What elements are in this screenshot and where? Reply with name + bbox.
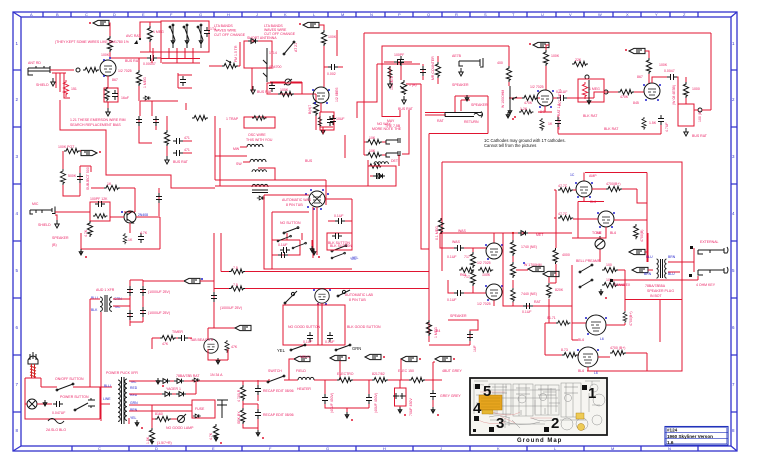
svg-text:0.1UF: 0.1UF <box>325 340 335 344</box>
svg-text:MR COUNTER: MR COUNTER <box>431 56 435 80</box>
ground arrow A2 <box>312 249 316 255</box>
resistor R44 <box>459 268 474 273</box>
wire osc feed <box>336 30 338 56</box>
capacitor C24 <box>330 115 336 125</box>
switch wafer 2 <box>184 25 189 48</box>
jack J3 <box>459 58 483 67</box>
resistor R42 <box>470 252 475 268</box>
svg-text:1K: 1K <box>128 238 133 242</box>
wire tuner loop 3 <box>357 64 420 118</box>
svg-text:BRN: BRN <box>668 255 676 259</box>
ground arrow A9 <box>151 439 154 444</box>
wire converter plate <box>319 25 343 87</box>
svg-text:RED: RED <box>130 386 138 390</box>
capacitor C10 <box>136 116 142 126</box>
svg-text:5: 5 <box>483 383 491 400</box>
wire U12 plate <box>592 189 647 203</box>
svg-text:100K: 100K <box>551 54 560 58</box>
resistor R54 <box>602 267 618 272</box>
svg-text:RECAP EDIT 08/06: RECAP EDIT 08/06 <box>263 389 294 393</box>
svg-text:FIELD: FIELD <box>296 369 306 373</box>
svg-text:AVC RAT: AVC RAT <box>126 34 142 38</box>
tube U1 triode <box>100 60 116 76</box>
wire det filter <box>384 62 412 80</box>
resistor R49 <box>547 283 552 298</box>
svg-text:8 PIN TUB: 8 PIN TUB <box>286 203 303 207</box>
svg-text:0.047UF: 0.047UF <box>52 411 65 415</box>
cathode line U4 <box>588 80 590 104</box>
wire B+ top bus <box>364 33 711 142</box>
svg-text:1/2 7025: 1/2 7025 <box>118 69 132 73</box>
resistor R9 <box>321 30 326 46</box>
output transformer T2 <box>657 259 667 278</box>
resistor R48 <box>511 288 516 302</box>
tuning box <box>244 41 272 68</box>
svg-text:(W 08 4E5B): (W 08 4E5B) <box>672 85 676 105</box>
svg-text:1.2K: 1.2K <box>520 107 528 111</box>
svg-text:400: 400 <box>497 61 503 65</box>
wire tuner loop 2 <box>382 46 509 117</box>
svg-text:100K: 100K <box>328 35 337 39</box>
svg-text:YEL: YEL <box>277 348 286 353</box>
resistor R26 <box>646 58 651 74</box>
svg-text:BUS RAT: BUS RAT <box>398 107 414 111</box>
svg-text:OSC WIRE: OSC WIRE <box>248 133 266 137</box>
twin electrolytic C44 <box>395 388 407 406</box>
svg-text:SEARCH REPLACEMENT BIAS: SEARCH REPLACEMENT BIAS <box>70 123 121 127</box>
svg-text:2N408: 2N408 <box>138 213 148 217</box>
resistor R40 <box>123 233 127 244</box>
svg-text:WAVES WIRE: WAVES WIRE <box>214 29 237 33</box>
capacitor C22 <box>335 218 345 224</box>
svg-text:R: R <box>455 12 458 17</box>
ground G3 <box>251 86 255 94</box>
svg-text:J: J <box>256 12 258 17</box>
svg-text:SPEAKER: SPEAKER <box>452 83 469 87</box>
bias box <box>192 400 215 418</box>
wire speaker out <box>668 248 694 272</box>
diode D8 <box>192 378 200 382</box>
wire 47k pair <box>554 190 598 219</box>
capacitor C48 <box>180 76 186 86</box>
tube U13 <box>598 211 614 227</box>
svg-text:B: B <box>56 12 59 17</box>
node B+ flag F1 <box>89 20 109 25</box>
resistor R20 <box>522 95 538 100</box>
switch S11 <box>336 345 350 350</box>
switch S14 <box>57 384 73 390</box>
pot R16 <box>400 80 407 95</box>
pilot lamp DS1 <box>27 399 37 409</box>
wire IF2 grid <box>423 56 438 84</box>
capacitor C8 <box>156 193 162 203</box>
tube U8 <box>486 243 502 259</box>
svg-text:BUS RAT: BUS RAT <box>173 160 189 164</box>
tube U4 <box>644 83 660 99</box>
svg-text:1/2 6BE6: 1/2 6BE6 <box>335 88 339 102</box>
svg-text:D: D <box>113 12 116 17</box>
resistor R67 <box>606 186 622 191</box>
resistor R57 <box>438 218 443 234</box>
selector tube U7 <box>315 289 329 303</box>
pot R6 <box>222 60 238 69</box>
svg-text:100K: 100K <box>659 63 668 67</box>
svg-text:FUSE: FUSE <box>195 407 205 411</box>
diode D11 <box>248 39 258 44</box>
svg-text:SHIELD: SHIELD <box>38 223 51 227</box>
resistor R69 <box>558 216 573 221</box>
switch S5 <box>277 235 291 241</box>
jack J6 <box>698 247 728 254</box>
ground arrow A12 <box>398 407 402 413</box>
wire rectifier row 2 <box>129 381 268 394</box>
ground G5 <box>165 156 169 164</box>
diode D5 <box>162 392 172 397</box>
resistor R11 <box>60 169 65 185</box>
wire rectifier row 1 <box>129 380 196 382</box>
flag F13 <box>294 356 310 361</box>
svg-text:GREY GREY: GREY GREY <box>440 394 461 398</box>
resistor R2 red <box>63 80 68 97</box>
resistor rows left <box>364 142 386 155</box>
svg-text:E: E <box>212 446 215 451</box>
svg-text:BRN: BRN <box>644 272 652 276</box>
svg-text:867: 867 <box>637 75 643 79</box>
svg-text:(1000UF 25V): (1000UF 25V) <box>220 306 242 310</box>
capacitor C1 <box>147 55 157 61</box>
wire tube stub <box>320 103 322 112</box>
resistor R30 <box>366 152 382 157</box>
svg-text:2: 2 <box>551 415 559 432</box>
svg-text:C: C <box>85 12 88 17</box>
border ticks bottom <box>72 446 698 451</box>
wire IF out <box>183 141 192 153</box>
resistor R68 <box>558 188 573 193</box>
svg-text:AE7B: AE7B <box>452 54 462 58</box>
svg-text:B4: B4 <box>436 329 440 333</box>
switch S9 <box>338 290 350 296</box>
IF can cluster <box>139 116 167 156</box>
ground G6 <box>402 96 406 104</box>
diode D10 <box>518 231 528 236</box>
flag F16 <box>401 356 417 361</box>
wire splitter bus <box>440 233 572 306</box>
svg-text:1C: 1C <box>570 173 575 177</box>
svg-text:X: X <box>626 12 629 17</box>
svg-text:1K: 1K <box>107 182 112 186</box>
svg-text:MAY: MAY <box>387 119 395 123</box>
wire converter loop <box>264 195 352 269</box>
antenna jack J1 <box>28 66 50 75</box>
svg-text:HEATER: HEATER <box>297 387 311 391</box>
filter caps bank <box>130 280 184 326</box>
heater resistor R38 <box>229 286 245 291</box>
resistor R45 <box>478 268 493 273</box>
capacitor C21 <box>555 117 561 127</box>
flag F15 <box>365 354 381 359</box>
svg-text:K: K <box>284 12 287 17</box>
resistor R25 red <box>582 82 587 99</box>
tube U6 <box>204 339 218 353</box>
ground arrow A15 <box>465 95 469 101</box>
trimmer cap VC1 <box>285 79 291 85</box>
capacitor C29 <box>127 310 133 320</box>
wire band box comb <box>153 48 200 63</box>
svg-text:ON/OFF SUTTON: ON/OFF SUTTON <box>55 377 84 381</box>
svg-text:H: H <box>383 446 386 451</box>
capacitor C43 <box>366 394 372 404</box>
resistor R65 <box>240 408 245 424</box>
flag F12 <box>632 267 648 272</box>
svg-text:8217/82: 8217/82 <box>372 372 385 376</box>
svg-text:A: A <box>30 12 33 17</box>
svg-text:BUS RAT: BUS RAT <box>692 134 708 138</box>
svg-text:(40UF 450V): (40UF 450V) <box>330 393 334 413</box>
svg-text:J: J <box>440 446 442 451</box>
svg-text:8.73: 8.73 <box>561 348 568 352</box>
AUD XFR T1 <box>100 295 112 312</box>
svg-text:POWER PUCK XFR: POWER PUCK XFR <box>106 371 138 375</box>
svg-text:SPEAKER: SPEAKER <box>450 314 467 318</box>
resistor R27 <box>683 82 688 98</box>
band switch box S1 <box>161 21 209 52</box>
svg-text:1K: 1K <box>548 122 553 126</box>
svg-text:1714: 1714 <box>269 51 277 55</box>
resistor R61 <box>337 377 353 382</box>
resistor R35 <box>252 116 266 121</box>
svg-text:L6: L6 <box>600 337 604 341</box>
svg-text:L6: L6 <box>594 371 598 375</box>
resistor R64 <box>240 385 245 401</box>
svg-text:4.7K: 4.7K <box>140 231 148 235</box>
svg-text:100: 100 <box>606 263 612 267</box>
wire speaker return <box>610 276 698 280</box>
svg-text:IN BOT: IN BOT <box>650 294 663 298</box>
diode D7 <box>193 414 201 418</box>
capacitor C32 <box>138 233 144 243</box>
svg-text:TIMER: TIMER <box>172 330 183 334</box>
svg-text:LTA BANDS: LTA BANDS <box>214 24 233 28</box>
wire osc tank <box>270 82 302 94</box>
wire plate supply V1 <box>109 23 110 36</box>
svg-text:GRN: GRN <box>352 346 361 351</box>
ground arrow A6 <box>43 400 47 406</box>
wire xfr feeds <box>90 349 112 421</box>
border ticks left right <box>13 70 737 412</box>
svg-text:0.1UF: 0.1UF <box>334 214 344 218</box>
svg-text:100K: 100K <box>101 53 110 57</box>
svg-text:BLU: BLU <box>104 384 111 388</box>
wire AC cord twisted <box>30 364 36 378</box>
flag F3 volume <box>81 150 97 155</box>
svg-text:SPEAKER: SPEAKER <box>471 103 488 107</box>
IF can 2 box <box>368 166 396 186</box>
wire IF can feed <box>368 155 399 166</box>
svg-text:#124: #124 <box>667 428 678 433</box>
switch S12 <box>580 265 592 272</box>
svg-text:4700(B+): 4700(B+) <box>606 182 621 186</box>
svg-text:4700 (B+): 4700 (B+) <box>610 346 625 350</box>
wire AVC bus <box>140 22 161 52</box>
svg-text:V: V <box>569 12 572 17</box>
svg-text:H: H <box>227 12 230 17</box>
capacitor C40 <box>53 401 63 407</box>
svg-text:DET: DET <box>391 159 399 163</box>
wire U13 plate <box>589 220 647 238</box>
svg-text:820K: 820K <box>555 288 564 292</box>
capacitor C34 <box>307 332 313 342</box>
resistor R14 <box>87 221 92 237</box>
svg-text:M: M <box>611 446 614 451</box>
svg-text:1780 1%: 1780 1% <box>115 40 129 44</box>
svg-text:WAS: WAS <box>458 229 467 233</box>
svg-text:STANDEX: STANDEX <box>614 283 631 287</box>
pot R47 <box>510 262 521 278</box>
flag F10 <box>543 271 559 276</box>
svg-text:EXTERNAL: EXTERNAL <box>700 240 719 244</box>
switch S3 <box>283 227 299 234</box>
fuse FU1 <box>48 419 64 424</box>
svg-text:0.1UF: 0.1UF <box>278 243 288 247</box>
tube U2 converter <box>313 87 329 103</box>
capacitor C30 <box>140 286 146 296</box>
flag F5 <box>629 48 645 53</box>
svg-text:AUTOMATIC WAS: AUTOMATIC WAS <box>282 198 312 202</box>
svg-text:W: W <box>598 12 602 17</box>
resistor R56 <box>426 320 431 336</box>
resistor R28 <box>642 117 646 130</box>
svg-text:FM 1.5 TR: FM 1.5 TR <box>234 45 238 62</box>
resistor R63 <box>409 377 425 382</box>
capacitor C28 <box>127 286 133 296</box>
node grid cap <box>76 68 80 72</box>
wire B+ main <box>268 379 442 381</box>
yellow transformer <box>479 395 502 410</box>
ground point 5 <box>475 384 480 389</box>
svg-text:4 700 R: 4 700 R <box>237 389 241 402</box>
svg-text:SPEAKER: SPEAKER <box>52 236 69 240</box>
svg-text:BL6: BL6 <box>610 231 616 235</box>
svg-text:4700(B+): 4700(B+) <box>629 312 633 327</box>
connector P2 <box>386 138 400 144</box>
svg-text:MW: MW <box>233 147 240 151</box>
svg-text:1.21 THESE EMERSON WIRE RIM: 1.21 THESE EMERSON WIRE RIM <box>70 118 126 122</box>
capacitor C15 <box>394 59 404 65</box>
svg-text:1UF: 1UF <box>473 345 477 352</box>
svg-text:7.5: 7.5 <box>233 266 238 270</box>
resistor R24 <box>572 61 588 66</box>
choke L6 <box>298 377 314 380</box>
AC plug P4 <box>28 352 38 364</box>
switch S4 <box>331 245 347 252</box>
rf2 box <box>178 73 192 88</box>
border row numbers <box>16 41 736 433</box>
node B+ flag F2 <box>303 22 319 27</box>
capacitor C46 <box>255 385 261 395</box>
wire heater 1 <box>221 233 429 272</box>
svg-text:(1.5/7+R): (1.5/7+R) <box>157 441 172 445</box>
ground G1 <box>51 78 55 86</box>
svg-text:M: M <box>341 12 344 17</box>
wire osc left <box>251 68 253 92</box>
resistor R10 <box>64 148 80 153</box>
pot VC2 <box>595 239 605 249</box>
heater resistor R37 <box>229 269 245 274</box>
capacitor C6 <box>328 64 338 70</box>
resistor R55 <box>602 282 618 287</box>
svg-text:BLK RAT: BLK RAT <box>604 127 619 131</box>
ground point 2 <box>544 427 549 432</box>
svg-text:(B)4700: (B)4700 <box>269 65 282 69</box>
resistor R21 <box>543 50 548 66</box>
svg-text:100K POT: 100K POT <box>58 145 75 149</box>
switch wafer 1 <box>170 25 175 48</box>
svg-text:0.1UF: 0.1UF <box>303 340 313 344</box>
tone branch <box>152 338 192 349</box>
flag F6 <box>184 278 200 283</box>
preamp RC box <box>90 202 110 221</box>
tube U11 power <box>578 347 598 367</box>
inductor L2 <box>250 159 266 162</box>
switch bank top <box>272 233 312 255</box>
svg-text:MET: MET <box>536 233 544 237</box>
svg-text:1 MEG: 1 MEG <box>153 30 164 34</box>
resistor R23 <box>618 89 634 94</box>
switch wafer 3 <box>198 25 203 48</box>
svg-text:7440 (NE): 7440 (NE) <box>521 292 537 296</box>
capacitor C11 <box>153 116 159 126</box>
svg-text:AUD 1 XFR: AUD 1 XFR <box>96 288 115 292</box>
svg-text:8 PIN TUB: 8 PIN TUB <box>349 298 366 302</box>
svg-text:1/2 7025: 1/2 7025 <box>530 85 544 89</box>
svg-text:R07 NET 1: R07 NET 1 <box>558 89 562 106</box>
svg-text:1000: 1000 <box>692 87 700 91</box>
wire interstage <box>553 92 644 98</box>
arrow CT <box>156 378 160 384</box>
svg-text:4000: 4000 <box>562 253 570 257</box>
capacitor C37 <box>454 290 464 296</box>
svg-text:D: D <box>155 446 158 451</box>
cathode bypass box <box>320 112 334 130</box>
wire cathode <box>107 76 109 108</box>
resistor R39 <box>225 340 229 353</box>
diode D6 <box>176 392 186 397</box>
svg-text:845: 845 <box>633 101 639 105</box>
capacitor C25 <box>211 292 217 302</box>
capacitor C45 <box>430 390 436 400</box>
svg-text:0.1UF: 0.1UF <box>522 310 532 314</box>
rect silk box <box>208 349 228 364</box>
capacitor C31 <box>140 307 146 317</box>
wire collector <box>110 217 160 233</box>
svg-text:10UF: 10UF <box>336 117 345 121</box>
capacitor C7 <box>77 173 83 183</box>
capacitor C14 <box>398 56 404 66</box>
svg-text:1N 34 A: 1N 34 A <box>210 373 223 377</box>
svg-text:BUS RAT: BUS RAT <box>125 59 141 63</box>
capacitor C47 <box>255 409 261 419</box>
svg-text:1/2 7025: 1/2 7025 <box>477 302 491 306</box>
switch S2 <box>284 42 294 54</box>
ground arrow A7 <box>135 420 139 426</box>
svg-text:4.7K: 4.7K <box>209 432 213 440</box>
wire output loop outer <box>442 162 682 371</box>
tone box <box>678 104 694 126</box>
power transformer T3 <box>118 377 127 424</box>
svg-text:0.002: 0.002 <box>327 72 336 76</box>
resistor R31 <box>368 164 382 169</box>
resistor R1 1MEG <box>107 36 112 52</box>
